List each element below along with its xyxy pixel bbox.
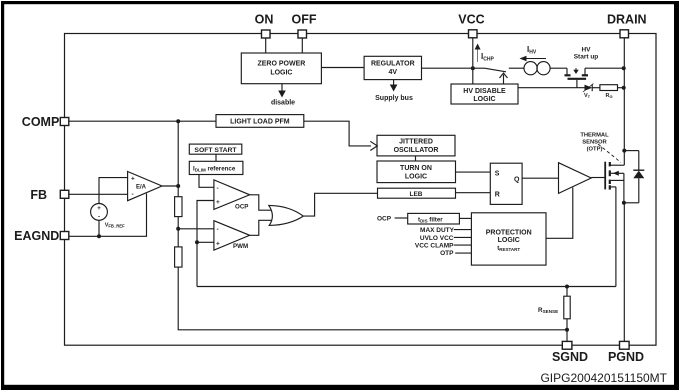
resistor R1 xyxy=(175,197,182,217)
wire zero power logic to regulator xyxy=(321,67,364,69)
svg-text:OCP: OCP xyxy=(235,204,248,211)
IHV arrow and label xyxy=(520,45,547,61)
wire OFF pin to zero power logic xyxy=(301,38,303,53)
current source IHV circles xyxy=(524,62,550,75)
wire driver to gate xyxy=(591,177,605,179)
diode VT xyxy=(583,84,594,100)
wire reference to OCP minus xyxy=(199,175,214,188)
svg-text:-: - xyxy=(98,215,100,221)
label OCP signal xyxy=(377,216,408,223)
svg-text:GIPG200420151150MT: GIPG200420151150MT xyxy=(540,371,667,385)
svg-text:-: - xyxy=(132,191,134,198)
body diode branch xyxy=(624,151,644,203)
svg-text:COMP: COMP xyxy=(22,115,60,129)
wire OR output to LEB xyxy=(303,193,377,216)
wire PGND vertical xyxy=(623,203,625,341)
block TURN ON LOGIC xyxy=(377,161,456,183)
pin DRAIN xyxy=(607,13,647,38)
svg-text:4V: 4V xyxy=(389,69,398,76)
wire sense line A xyxy=(197,286,616,288)
svg-text:PWM: PWM xyxy=(233,243,248,250)
wire HV startup drain to DRAIN net xyxy=(585,67,624,69)
wire source sense down xyxy=(615,187,617,287)
svg-text:EAGND: EAGND xyxy=(14,229,59,243)
svg-text:VFB_REF: VFB_REF xyxy=(105,223,125,229)
node sense PWM junction xyxy=(195,240,199,244)
svg-text:VCC CLAMP: VCC CLAMP xyxy=(415,242,454,249)
block PROTECTION LOGIC xyxy=(471,213,546,265)
gate OR xyxy=(269,205,304,225)
wire tDIS filter to protection logic xyxy=(459,217,471,219)
wire turn on logic to S xyxy=(456,171,491,173)
node divider junction xyxy=(176,227,180,231)
svg-text:+: + xyxy=(216,199,220,206)
svg-text:HV DISABLE: HV DISABLE xyxy=(463,88,506,95)
pin PGND xyxy=(608,341,644,364)
wire R2 bottom to sense gnd line xyxy=(178,267,567,330)
wire diode to RG xyxy=(592,87,600,89)
wire OCP plus from sense xyxy=(197,201,214,287)
block LEB xyxy=(378,188,456,198)
svg-text:UVLO VCC: UVLO VCC xyxy=(420,235,454,242)
pin ON xyxy=(255,13,274,39)
wire sense to PWM plus xyxy=(197,241,214,243)
wire ON pin to zero power logic xyxy=(265,38,267,53)
svg-text:Start up: Start up xyxy=(574,54,599,61)
wire LEB to R xyxy=(456,192,491,194)
switch HV disable xyxy=(473,68,524,72)
svg-text:SENSOR: SENSOR xyxy=(582,140,607,146)
wire PWM output to OR xyxy=(250,220,272,235)
block REGULATOR 4V xyxy=(364,56,421,79)
svg-text:SOFT START: SOFT START xyxy=(194,147,237,154)
node on drain vertical xyxy=(622,86,626,90)
svg-text:VT: VT xyxy=(584,93,591,99)
IC package outline xyxy=(65,34,657,346)
label UVLO VCC xyxy=(420,235,471,242)
wire FB pin to E/A minus xyxy=(69,193,128,195)
source VFB_REF xyxy=(91,204,125,229)
svg-text:THERMAL: THERMAL xyxy=(580,133,609,139)
disable arrow xyxy=(271,84,295,107)
svg-text:LIGHT LOAD PFM: LIGHT LOAD PFM xyxy=(230,119,290,126)
op-amp E/A xyxy=(128,172,162,201)
svg-text:+: + xyxy=(216,241,220,248)
wire divider mid xyxy=(177,217,179,247)
svg-text:-: - xyxy=(217,226,219,233)
block ZERO POWER LOGIC xyxy=(241,53,321,84)
ICHP current arrow xyxy=(475,44,495,63)
pin VCC xyxy=(458,13,484,38)
block LIGHT LOAD PFM xyxy=(216,115,304,128)
svg-text:PGND: PGND xyxy=(608,350,644,364)
label MAX DUTY xyxy=(420,227,471,234)
svg-text:TURN ON: TURN ON xyxy=(400,165,432,172)
block tDIS filter xyxy=(408,213,460,224)
wire OCP output to OR xyxy=(250,195,272,210)
block IDLIM reference xyxy=(189,161,243,174)
comparator OCP xyxy=(214,180,250,211)
block JITTERED OSCILLATOR xyxy=(377,135,455,156)
svg-text:LOGIC: LOGIC xyxy=(473,96,495,103)
wire protection logic to driver xyxy=(546,188,573,239)
thermal sensor label xyxy=(580,133,621,163)
svg-text:+: + xyxy=(131,176,135,183)
svg-text:LOGIC: LOGIC xyxy=(405,174,427,181)
svg-text:SGND: SGND xyxy=(552,350,588,364)
comparator PWM xyxy=(214,221,250,251)
arrow HV disable to switch xyxy=(500,73,508,84)
wire current source to HV startup fet xyxy=(550,67,567,69)
svg-text:R: R xyxy=(495,192,500,199)
svg-text:(OTP): (OTP) xyxy=(587,147,603,153)
svg-text:OFF: OFF xyxy=(292,13,317,27)
wire light load pfm to jittered oscillator xyxy=(304,121,378,150)
resistor R2 xyxy=(175,247,182,267)
wire RG to drain net xyxy=(618,87,624,89)
node drain diode junction xyxy=(622,149,626,153)
svg-text:RG: RG xyxy=(606,93,613,99)
svg-text:-: - xyxy=(217,185,219,192)
svg-text:S: S xyxy=(495,171,500,178)
node VCC junction xyxy=(471,66,475,70)
svg-text:DRAIN: DRAIN xyxy=(607,13,647,27)
wire source to EAGND line xyxy=(98,220,100,236)
svg-text:Q: Q xyxy=(514,177,520,184)
svg-text:ZERO POWER: ZERO POWER xyxy=(257,61,305,68)
block SOFT START xyxy=(189,144,242,154)
svg-text:E/A: E/A xyxy=(136,185,147,191)
svg-text:disable: disable xyxy=(271,100,295,107)
svg-text:OTP: OTP xyxy=(440,250,454,257)
node Rsense bottom junction xyxy=(565,328,569,332)
svg-text:LOGIC: LOGIC xyxy=(498,237,520,244)
svg-text:LEB: LEB xyxy=(410,191,423,198)
transistor HV startup (depletion FET) xyxy=(565,47,599,88)
node Rsense top junction xyxy=(565,285,569,289)
resistor RSENSE xyxy=(538,287,570,342)
svg-text:FB: FB xyxy=(30,188,47,202)
pin EAGND xyxy=(14,229,69,243)
svg-text:OCP: OCP xyxy=(377,216,392,223)
driver buffer xyxy=(559,163,592,194)
label VCC CLAMP xyxy=(415,242,472,249)
svg-text:ON: ON xyxy=(255,13,274,27)
node mosfet source junction xyxy=(622,201,626,205)
svg-text:+: + xyxy=(97,206,101,212)
pin SGND xyxy=(552,341,588,364)
pin OFF xyxy=(292,13,317,39)
resistor RG xyxy=(600,85,618,99)
pin FB xyxy=(30,188,68,202)
wire E/A output xyxy=(162,185,178,187)
wire COMP node to divider xyxy=(177,121,179,197)
svg-text:HV: HV xyxy=(581,47,591,54)
supply bus arrow xyxy=(375,80,413,102)
wire Q to driver xyxy=(522,177,558,179)
wire HV disable logic to gate line xyxy=(518,87,585,89)
wire drain stub xyxy=(610,164,625,166)
wire E/A plus to reference source xyxy=(99,178,128,204)
svg-text:REGULATOR: REGULATOR xyxy=(371,61,415,68)
node COMP junction xyxy=(176,119,180,123)
svg-text:PROTECTION: PROTECTION xyxy=(486,229,532,236)
wire divider to PWM minus xyxy=(178,228,214,230)
wire COMP pin to light load pfm xyxy=(69,120,216,122)
node E/A output junction xyxy=(176,184,180,188)
transistor power MOSFET xyxy=(605,162,624,203)
wire oscillator to turn on logic xyxy=(415,156,417,161)
svg-text:Supply bus: Supply bus xyxy=(375,95,413,102)
label OTP xyxy=(440,250,471,257)
node drain top junction xyxy=(622,66,626,70)
wire DRAIN pin down to mosfet drain xyxy=(623,38,625,165)
svg-text:RSENSE: RSENSE xyxy=(538,307,558,314)
svg-text:VCC: VCC xyxy=(458,13,484,27)
svg-text:JITTERED: JITTERED xyxy=(399,139,433,146)
svg-text:LOGIC: LOGIC xyxy=(270,70,292,77)
wire soft start to reference xyxy=(215,154,217,161)
pin COMP xyxy=(22,115,69,129)
wire regulator to VCC node xyxy=(422,67,473,69)
node EAGND junction xyxy=(97,234,101,238)
wire EAGND pin to E/A ground xyxy=(69,194,147,237)
flip-flop SR latch xyxy=(490,163,522,204)
wire VCC pin down to HV disable logic xyxy=(472,38,474,84)
svg-text:OSCILLATOR: OSCILLATOR xyxy=(394,147,439,154)
block HV DISABLE LOGIC xyxy=(451,84,518,104)
svg-text:MAX DUTY: MAX DUTY xyxy=(420,227,455,234)
